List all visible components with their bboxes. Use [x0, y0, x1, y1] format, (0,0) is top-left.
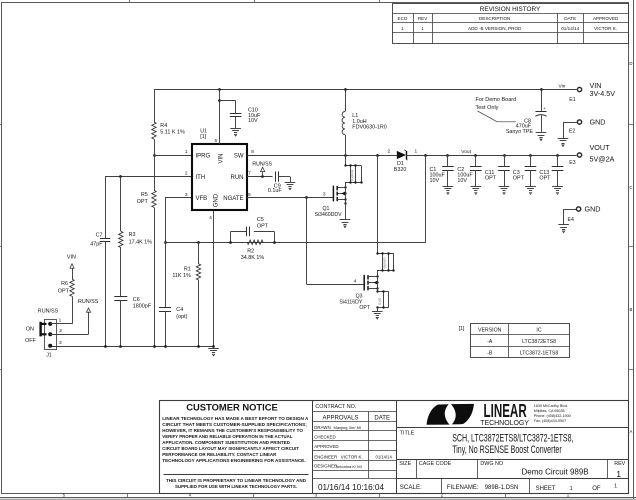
- svg-text:TECHNOLOGY: TECHNOLOGY: [480, 418, 529, 427]
- node Vout label: [461, 149, 471, 155]
- svg-text:Milpitas, CA 95035: Milpitas, CA 95035: [534, 409, 565, 413]
- wire feedback row: [165, 241, 426, 244]
- resistor R3: [119, 231, 153, 247]
- svg-text:LINEAR TECHNOLOGY HAS MADE A B: LINEAR TECHNOLOGY HAS MADE A BEST EFFORT…: [162, 416, 309, 421]
- svg-text:3: 3: [185, 192, 188, 198]
- title block outer box: [160, 401, 629, 494]
- node Vin label: [559, 83, 566, 89]
- svg-text:REVISION HISTORY: REVISION HISTORY: [480, 6, 541, 13]
- transistor Q1 MOSFET symbol: [333, 182, 346, 204]
- svg-text:C6: C6: [133, 297, 140, 303]
- wire ITH pin 2: [105, 175, 192, 178]
- svg-text:DATE: DATE: [564, 16, 576, 21]
- svg-text:R5: R5: [141, 192, 148, 198]
- revision table row 1: [401, 26, 617, 31]
- customer notice separator: [164, 474, 309, 476]
- svg-text:OPT: OPT: [137, 199, 149, 205]
- wire R3 to C6: [120, 248, 122, 297]
- svg-text:47pF: 47pF: [90, 241, 103, 247]
- svg-text:+: +: [543, 106, 546, 111]
- logo LINEAR text: [484, 401, 527, 421]
- jumper J1 header: [45, 320, 57, 359]
- svg-text:C7: C7: [96, 232, 103, 238]
- svg-text:GND: GND: [585, 204, 601, 213]
- Q3 reference label: [339, 294, 370, 312]
- Q1 gate pin 3 label: [323, 192, 326, 198]
- svg-text:01/16/14 10:16:04: 01/16/14 10:16:04: [318, 483, 384, 492]
- svg-text:(1)(2): (1)(2): [377, 298, 381, 305]
- svg-text:Demo Circuit 989B: Demo Circuit 989B: [522, 468, 589, 477]
- wire U1 GND pin 4 to rail: [213, 210, 215, 346]
- revision history header text: [480, 6, 541, 13]
- svg-text:E4: E4: [568, 217, 574, 223]
- svg-text:1: 1: [401, 26, 404, 31]
- capacitor C2: [457, 155, 481, 187]
- version table grid: [471, 324, 570, 358]
- wire D1 cathode to Vout rail: [414, 154, 576, 157]
- svg-text:SHEET: SHEET: [536, 486, 556, 492]
- svg-text:PERFORMANCE OR RELIABILITY. C: PERFORMANCE OR RELIABILITY. CONTACT LINE…: [162, 452, 277, 457]
- svg-text:IPRG: IPRG: [196, 153, 211, 159]
- svg-text:SCH, LTC3872ETS8/LTC3872-1ETS8: SCH, LTC3872ETS8/LTC3872-1ETS8,: [452, 433, 573, 445]
- ground symbol at C8: [536, 133, 547, 141]
- J1 ON OFF labels: [25, 327, 36, 345]
- resistor R4: [152, 122, 185, 139]
- svg-text:For Demo Board: For Demo Board: [476, 97, 517, 103]
- svg-text:Vout: Vout: [461, 149, 471, 155]
- diode D1 B320: [388, 149, 418, 174]
- transistor Q1 drain pin group: [344, 164, 362, 183]
- capacitor C5 parallel branch: [231, 217, 275, 242]
- svg-text:OFF: OFF: [25, 338, 36, 344]
- svg-text:OPT: OPT: [513, 176, 525, 182]
- svg-text:VIN: VIN: [219, 153, 225, 163]
- svg-text:E2: E2: [569, 129, 575, 135]
- svg-text:5V@2A: 5V@2A: [590, 155, 615, 164]
- svg-text:-A: -A: [487, 339, 493, 345]
- svg-text:OPT: OPT: [539, 176, 551, 182]
- Q1 reference label: [315, 206, 343, 218]
- ground symbol at C10: [230, 129, 241, 137]
- svg-text:CONTRACT NO.: CONTRACT NO.: [315, 404, 356, 410]
- logo TECHNOLOGY text: [480, 418, 529, 427]
- version table text: [478, 328, 558, 357]
- svg-text:(5)(6)(7): (5)(6)(7): [383, 257, 387, 268]
- J1 pin labels: [59, 318, 63, 346]
- approvals table grid: [313, 412, 396, 479]
- svg-text:01/14/14: 01/14/14: [376, 454, 393, 459]
- svg-text:Si3460DDV: Si3460DDV: [315, 212, 343, 218]
- wire GND rail: [50, 345, 215, 348]
- svg-text:FDV0630-1R0: FDV0630-1R0: [352, 125, 386, 131]
- svg-text:GND: GND: [590, 117, 606, 126]
- svg-text:C: C: [629, 185, 632, 190]
- svg-text:VERIFY PROPER AND RELIABLE OPE: VERIFY PROPER AND RELIABLE OPERATION IN …: [162, 434, 292, 439]
- svg-text:IC: IC: [536, 328, 541, 334]
- svg-text:OPT: OPT: [359, 305, 370, 311]
- approvals table text: [314, 416, 392, 469]
- svg-text:R2: R2: [247, 249, 254, 255]
- svg-text:3: 3: [59, 340, 62, 346]
- svg-text:Tiny, No RSENSE Boost Converte: Tiny, No RSENSE Boost Converter: [452, 444, 562, 456]
- net flag RUN/SS near J1: [78, 299, 99, 312]
- svg-text:2: 2: [59, 328, 62, 334]
- svg-text:1630 McCarthy Blvd.: 1630 McCarthy Blvd.: [534, 404, 568, 408]
- svg-text:REV: REV: [418, 16, 428, 21]
- svg-text:RUN/SS: RUN/SS: [38, 309, 59, 315]
- svg-text:Antonina K/ MI: Antonina K/ MI: [336, 464, 362, 469]
- capacitor C7: [90, 232, 110, 247]
- svg-text:Manjing Xie/ MI: Manjing Xie/ MI: [334, 425, 362, 430]
- svg-text:CUSTOMER NOTICE: CUSTOMER NOTICE: [186, 401, 278, 412]
- contract no cell: [313, 404, 396, 412]
- wire IPRG node to R5: [154, 155, 156, 190]
- ground symbol at Q3: [372, 312, 383, 320]
- svg-text:01/14/14: 01/14/14: [561, 26, 579, 31]
- svg-text:RUN: RUN: [231, 175, 244, 181]
- svg-text:FILENAME:: FILENAME:: [447, 485, 479, 491]
- svg-text:C5: C5: [257, 217, 264, 223]
- wire R4 to IPRG node: [153, 139, 156, 157]
- power flag VIN at R6: [67, 255, 76, 280]
- svg-text:10V: 10V: [430, 178, 440, 184]
- wire Q1 source to ground: [345, 203, 347, 219]
- terminal E4 GND: [564, 204, 601, 224]
- svg-text:J1: J1: [46, 353, 52, 359]
- svg-text:VICTOR K.: VICTOR K.: [594, 26, 617, 31]
- title block main dividers: [313, 401, 397, 493]
- svg-text:5: 5: [248, 192, 251, 198]
- svg-text:RUN/SS: RUN/SS: [78, 299, 99, 305]
- svg-text:10V: 10V: [457, 178, 467, 184]
- svg-text:10V: 10V: [248, 118, 258, 124]
- svg-text:VERSION: VERSION: [478, 328, 502, 334]
- wire SW node down to Q3 drain: [377, 155, 379, 253]
- svg-text:OPT: OPT: [485, 176, 497, 182]
- scale filename sheet row text: [400, 483, 617, 492]
- svg-text:VFB: VFB: [196, 196, 208, 202]
- svg-text:OPT: OPT: [58, 289, 70, 295]
- size cage dwg row text: [399, 461, 625, 479]
- revision table column headers: [398, 16, 620, 21]
- svg-text:R6: R6: [61, 281, 68, 287]
- svg-text:Fax: (408)434-0507: Fax: (408)434-0507: [534, 419, 566, 423]
- ground symbol at C1: [443, 187, 454, 195]
- wire ITH to C7: [105, 177, 107, 239]
- svg-text:RUN/SS: RUN/SS: [252, 161, 272, 167]
- timestamp cell: [318, 483, 384, 492]
- wire C6 to GND rail: [120, 300, 122, 346]
- svg-text:LTC3872ETS8: LTC3872ETS8: [522, 339, 556, 345]
- svg-text:A: A: [629, 429, 632, 434]
- svg-text:LTC3872-1ETS8: LTC3872-1ETS8: [520, 351, 559, 357]
- svg-text:DRAWN: DRAWN: [314, 425, 330, 430]
- svg-text:R1: R1: [184, 266, 191, 272]
- svg-text:(opt): (opt): [176, 314, 187, 320]
- Linear Technology logo mark: [427, 404, 474, 425]
- wire from VIN rail down to R4: [154, 90, 156, 123]
- op-amp U1 LTC3872 box: [192, 128, 247, 210]
- svg-text:CIRCUIT BOARD LAYOUT MAY SIGNI: CIRCUIT BOARD LAYOUT MAY SIGNIFICANTLY A…: [162, 446, 299, 451]
- svg-text:HOWEVER, IT REMAINS THE CUSTOM: HOWEVER, IT REMAINS THE CUSTOMER'S RESPO…: [162, 428, 303, 433]
- svg-text:2: 2: [388, 149, 391, 155]
- svg-text:4: 4: [209, 215, 212, 221]
- svg-text:DATE: DATE: [374, 416, 390, 422]
- svg-text:ITH: ITH: [196, 175, 206, 181]
- logo address text: [534, 404, 571, 423]
- capacitor C8 branch: [506, 90, 547, 135]
- wire VFB pin 3: [165, 197, 192, 199]
- Q3 gate pin 4 label: [354, 278, 357, 284]
- wire J1 pin1 to R6: [50, 296, 72, 324]
- capacitor C10 branch: [219, 101, 261, 129]
- svg-text:[1]: [1]: [459, 326, 465, 332]
- transistor Q3 MOSFET symbol: [364, 270, 378, 291]
- wire J1 pin2 to RUN/SS flag: [50, 312, 88, 334]
- svg-text:SUPPLIED FOR USE WITH LINEAR T: SUPPLIED FOR USE WITH LINEAR TECHNOLOGY …: [175, 484, 297, 489]
- svg-text:ENGINEER: ENGINEER: [314, 454, 337, 459]
- svg-text:B: B: [629, 307, 632, 312]
- ground symbol at C9: [285, 183, 296, 190]
- svg-text:R4: R4: [160, 123, 167, 129]
- wire IPRG pin 1: [154, 155, 192, 157]
- customer notice paragraph: [162, 416, 309, 463]
- svg-text:GND: GND: [214, 193, 220, 207]
- svg-text:(1)(2)(3): (1)(2)(3): [350, 170, 354, 181]
- svg-text:Sanyo TPE: Sanyo TPE: [506, 129, 534, 135]
- svg-text:VICTOR K.: VICTOR K.: [341, 454, 363, 459]
- svg-text:17.4K 1%: 17.4K 1%: [129, 239, 153, 245]
- border zone numbers bottom: [63, 492, 570, 497]
- svg-text:ON: ON: [26, 327, 34, 333]
- svg-text:OPT: OPT: [257, 223, 269, 229]
- svg-text:NGATE: NGATE: [223, 196, 243, 202]
- node RUN/SS label at J1: [38, 309, 59, 315]
- svg-text:R3: R3: [129, 232, 136, 238]
- svg-text:0.1uF: 0.1uF: [268, 188, 282, 194]
- svg-text:E3: E3: [569, 160, 575, 166]
- svg-text:APPROVED: APPROVED: [593, 16, 619, 21]
- svg-text:1: 1: [59, 318, 62, 324]
- svg-text:1: 1: [570, 486, 573, 492]
- net flag RUN/SS at RUN pin: [252, 161, 272, 176]
- svg-text:7: 7: [248, 170, 251, 176]
- ground symbol at E4: [558, 225, 569, 233]
- resistor R6: [58, 279, 74, 296]
- wire feedback row up to Vout rail: [425, 155, 427, 242]
- svg-text:Vin: Vin: [559, 83, 566, 89]
- capacitor C1: [430, 155, 454, 187]
- svg-text:1: 1: [185, 149, 188, 155]
- svg-text:D: D: [629, 61, 632, 66]
- wire SW to Q1 drain pins: [345, 155, 347, 166]
- svg-text:3: 3: [323, 192, 326, 198]
- jumper shunt bar: [41, 322, 47, 337]
- ground symbol at C3: [525, 187, 536, 195]
- customer notice proprietary text: [166, 478, 307, 489]
- svg-text:1: 1: [614, 483, 617, 489]
- svg-text:OF: OF: [592, 486, 601, 492]
- svg-text:APPROVED: APPROVED: [314, 444, 338, 449]
- capacitor C9: [268, 172, 291, 195]
- svg-text:1800pF: 1800pF: [133, 304, 152, 310]
- wire U1 VIN pin 6: [218, 90, 221, 145]
- svg-text:CHECKED: CHECKED: [314, 435, 335, 440]
- ground symbol at C2: [471, 187, 482, 195]
- svg-text:34.8K 1%: 34.8K 1%: [241, 255, 265, 261]
- capacitor C4: [159, 242, 188, 346]
- wire SW node row: [247, 154, 397, 157]
- wire NGATE branch to Q3 gate: [307, 198, 365, 285]
- svg-text:CIRCUIT THAT MEETS CUSTOMER-SU: CIRCUIT THAT MEETS CUSTOMER-SUPPLIED SPE…: [162, 422, 307, 427]
- svg-text:E1: E1: [569, 97, 575, 103]
- title cell text: [400, 431, 574, 457]
- svg-text:4: 4: [354, 278, 357, 284]
- wire NGATE pin 5 to Q1 gate: [247, 196, 333, 199]
- svg-text:[1]: [1]: [200, 134, 206, 140]
- capacitor C13: [539, 155, 563, 187]
- svg-text:1: 1: [421, 26, 424, 31]
- svg-text:SIZE: SIZE: [399, 461, 411, 467]
- customer notice heading: [186, 401, 278, 412]
- svg-text:C4: C4: [176, 307, 183, 313]
- resistor R1: [172, 242, 200, 346]
- svg-text:Phone: (408)432-1900: Phone: (408)432-1900: [534, 414, 571, 418]
- terminal E3 VOUT: [569, 143, 614, 166]
- svg-text:TITLE: TITLE: [400, 431, 415, 437]
- svg-text:VIN: VIN: [67, 255, 76, 261]
- wire R5 to GND rail: [154, 207, 156, 346]
- svg-text:3V-4.5V: 3V-4.5V: [590, 89, 616, 98]
- capacitor C6: [114, 297, 151, 310]
- svg-text:SW: SW: [234, 153, 244, 159]
- wire C7 to GND rail: [105, 241, 107, 346]
- U1 pin names: [196, 153, 244, 207]
- svg-text:ECO: ECO: [398, 16, 408, 21]
- revision history table grid: [392, 4, 628, 44]
- svg-text:THIS CIRCUIT IS PROPRIETARY TO: THIS CIRCUIT IS PROPRIETARY TO LINEAR TE…: [166, 478, 307, 483]
- svg-text:1: 1: [415, 149, 418, 155]
- ground symbol at C13: [552, 187, 563, 195]
- svg-text:DESCRIPTION: DESCRIPTION: [479, 16, 510, 21]
- svg-text:2: 2: [185, 170, 188, 176]
- border zone letters right: [629, 61, 632, 434]
- terminal E2 GND: [563, 117, 605, 138]
- title block right side rows: [396, 428, 628, 494]
- inductor L1: [342, 90, 387, 156]
- svg-text:5.11 K 1%: 5.11 K 1%: [160, 130, 185, 136]
- svg-text:APPLICATION. COMPONENT SUBSTI: APPLICATION. COMPONENT SUBSTITUTION AND …: [162, 440, 290, 445]
- ground symbol at C11: [499, 187, 510, 195]
- wire VIN rail: [154, 88, 576, 91]
- resistor R5: [137, 190, 156, 207]
- svg-text:Q1: Q1: [323, 206, 330, 212]
- svg-text:Test Only: Test Only: [476, 105, 499, 111]
- svg-text:989B-1.DSN: 989B-1.DSN: [485, 485, 519, 491]
- capacitor C3: [513, 155, 537, 187]
- transistor Q3 source pin group: [376, 290, 388, 308]
- svg-text:APPROVALS: APPROVALS: [323, 416, 359, 422]
- wire U1 RUN pin 7: [247, 175, 273, 178]
- pin 4 label: [209, 215, 212, 221]
- wire ITH to R3: [120, 177, 122, 232]
- svg-text:REV: REV: [614, 461, 625, 467]
- svg-text:1: 1: [616, 469, 621, 479]
- svg-text:SCALE:: SCALE:: [400, 484, 422, 491]
- ground symbol at Q1: [340, 220, 351, 228]
- svg-text:DESIGNER: DESIGNER: [314, 464, 337, 469]
- svg-text:11K 1%: 11K 1%: [172, 273, 191, 279]
- svg-text:-B: -B: [487, 351, 493, 357]
- wire J1 pin3 to GND rail: [50, 345, 52, 347]
- wire Q3 source to ground: [377, 308, 379, 312]
- svg-text:ADD -B VERSION, PROD: ADD -B VERSION, PROD: [468, 26, 522, 31]
- U1 pin numbers: [185, 138, 254, 198]
- ground symbol at E2: [558, 139, 569, 147]
- svg-text:6: 6: [215, 138, 218, 144]
- capacitor C11: [485, 155, 510, 187]
- svg-text:CAGE CODE: CAGE CODE: [419, 461, 452, 467]
- wire VFB down to feedback row: [164, 198, 167, 244]
- transistor Q3 drain pin group: [376, 252, 394, 271]
- svg-text:8: 8: [251, 149, 254, 155]
- terminal E1 VIN: [569, 81, 615, 103]
- ground symbol at GND rail: [208, 349, 219, 356]
- svg-text:VOUT: VOUT: [590, 143, 611, 152]
- version table footnote marker: [459, 326, 465, 332]
- svg-text:B320: B320: [394, 167, 407, 173]
- svg-text:TECHNOLOGY APPLICATIONS ENGINE: TECHNOLOGY APPLICATIONS ENGINEERING FOR …: [162, 458, 305, 463]
- svg-text:DWG NO: DWG NO: [480, 461, 503, 467]
- resistor R2: [241, 240, 265, 261]
- for demo board test only note: [476, 97, 517, 122]
